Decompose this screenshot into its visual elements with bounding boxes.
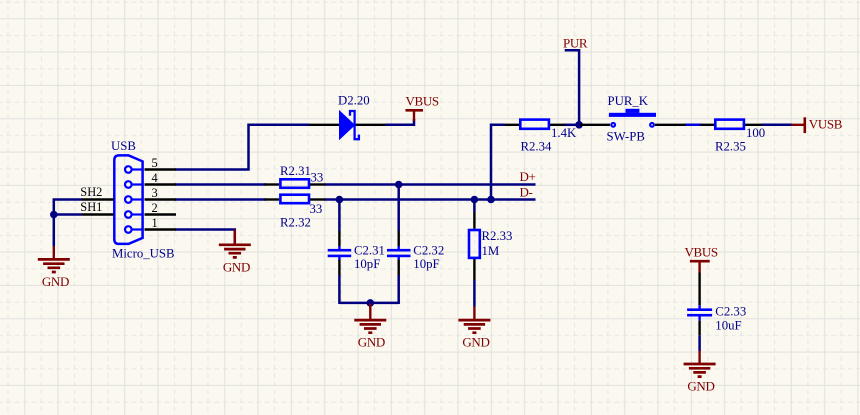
pin 4 <box>145 171 177 185</box>
power port VBUS top <box>406 94 439 121</box>
wire PUR vertical <box>565 50 579 125</box>
svg-text:2: 2 <box>152 201 158 215</box>
wire pin5 to diode anode <box>175 125 309 170</box>
diode D2.20 <box>309 93 386 140</box>
ground GND at shield <box>38 246 70 289</box>
net label D- <box>520 184 533 199</box>
junction capacitor ground node <box>367 299 375 307</box>
wire net D- <box>175 198 536 201</box>
net label PUR <box>563 36 588 51</box>
junction C2.31 on D- <box>336 196 344 204</box>
wire C2.31 branch from D- <box>338 200 341 305</box>
wire diode cathode to VBUS <box>386 119 415 125</box>
resistor R2.34 <box>505 120 577 154</box>
svg-text:SH1: SH1 <box>80 200 102 214</box>
svg-text:C2.32: C2.32 <box>413 244 444 258</box>
wire R2.34 to switch <box>564 124 580 127</box>
svg-text:GND: GND <box>223 259 250 274</box>
svg-text:VBUS: VBUS <box>685 245 718 260</box>
wire pull-up line left <box>491 125 505 200</box>
wire pin1 to ground <box>175 230 235 246</box>
svg-text:USB: USB <box>111 139 136 153</box>
wire C2.33 to ground <box>698 321 700 351</box>
svg-text:SW-PB: SW-PB <box>607 129 645 143</box>
capacitor C2.32 <box>387 244 444 272</box>
svg-text:33: 33 <box>310 202 323 216</box>
junction PUR node <box>575 121 583 129</box>
resistor R2.31 <box>265 164 326 188</box>
pin 2 <box>145 201 177 215</box>
svg-text:R2.34: R2.34 <box>521 140 553 154</box>
svg-text:5: 5 <box>152 156 158 170</box>
svg-text:R2.33: R2.33 <box>482 229 513 243</box>
junction pull-up to D- <box>487 196 495 204</box>
pin SH2 <box>80 185 113 199</box>
pin 1 <box>145 216 177 230</box>
pin 5 <box>145 156 177 170</box>
connector USB Micro_USB <box>111 139 175 260</box>
junction R2.33 on D- <box>471 196 479 204</box>
svg-text:PUR_K: PUR_K <box>608 94 649 108</box>
power port VBUS bottom <box>685 245 718 273</box>
svg-text:1.4K: 1.4K <box>551 126 577 140</box>
pin SH1 <box>80 200 113 215</box>
wire R2.33 branch from D- <box>473 200 476 307</box>
svg-text:GND: GND <box>462 334 489 349</box>
svg-text:10pF: 10pF <box>413 257 439 271</box>
svg-text:1: 1 <box>152 216 158 230</box>
svg-text:C2.33: C2.33 <box>715 304 746 318</box>
svg-text:VBUS: VBUS <box>406 94 439 109</box>
svg-text:VUSB: VUSB <box>809 117 843 132</box>
resistor R2.32 <box>265 195 326 230</box>
svg-text:3: 3 <box>152 186 158 200</box>
resistor R2.35 <box>701 120 766 154</box>
svg-text:GND: GND <box>42 274 69 289</box>
ground GND at R2.33 <box>458 307 490 350</box>
svg-text:D+: D+ <box>520 169 536 184</box>
svg-text:D2.20: D2.20 <box>338 93 370 107</box>
svg-text:10uF: 10uF <box>715 318 741 332</box>
switch PUR_K SW-PB <box>580 94 686 143</box>
svg-text:D-: D- <box>520 184 533 199</box>
svg-text:33: 33 <box>311 170 324 184</box>
svg-text:R2.31: R2.31 <box>280 164 311 178</box>
svg-text:GND: GND <box>687 379 714 394</box>
wire R2.35 to VUSB <box>761 124 792 127</box>
junction SH1 <box>50 211 58 219</box>
resistor R2.33 <box>469 229 512 258</box>
ground GND at C2.33 <box>684 351 716 394</box>
svg-text:GND: GND <box>358 334 385 349</box>
capacitor C2.31 <box>328 244 385 272</box>
ground GND at pin1 <box>219 230 251 275</box>
capacitor C2.33 <box>687 273 746 333</box>
power port VUSB <box>792 117 843 134</box>
svg-text:100: 100 <box>746 126 765 140</box>
svg-text:10pF: 10pF <box>354 257 380 271</box>
net label D+ <box>520 169 536 184</box>
svg-text:Micro_USB: Micro_USB <box>112 247 175 261</box>
svg-text:R2.32: R2.32 <box>280 215 311 229</box>
pin 3 <box>145 186 177 200</box>
wire C2.32 branch from D+ <box>397 185 400 305</box>
wire switch to R2.35 <box>685 124 701 127</box>
wire shield SH2/SH1 to ground <box>54 200 82 247</box>
svg-text:R2.35: R2.35 <box>715 140 746 154</box>
ground GND at capacitors <box>354 304 386 350</box>
svg-text:SH2: SH2 <box>80 185 102 199</box>
svg-text:4: 4 <box>152 171 158 185</box>
svg-text:C2.31: C2.31 <box>354 244 385 258</box>
wire net D+ <box>175 183 536 186</box>
svg-text:1M: 1M <box>482 244 500 258</box>
wire capacitors common to ground <box>339 302 398 305</box>
junction C2.32 on D+ <box>395 181 403 189</box>
svg-text:PUR: PUR <box>563 36 588 51</box>
